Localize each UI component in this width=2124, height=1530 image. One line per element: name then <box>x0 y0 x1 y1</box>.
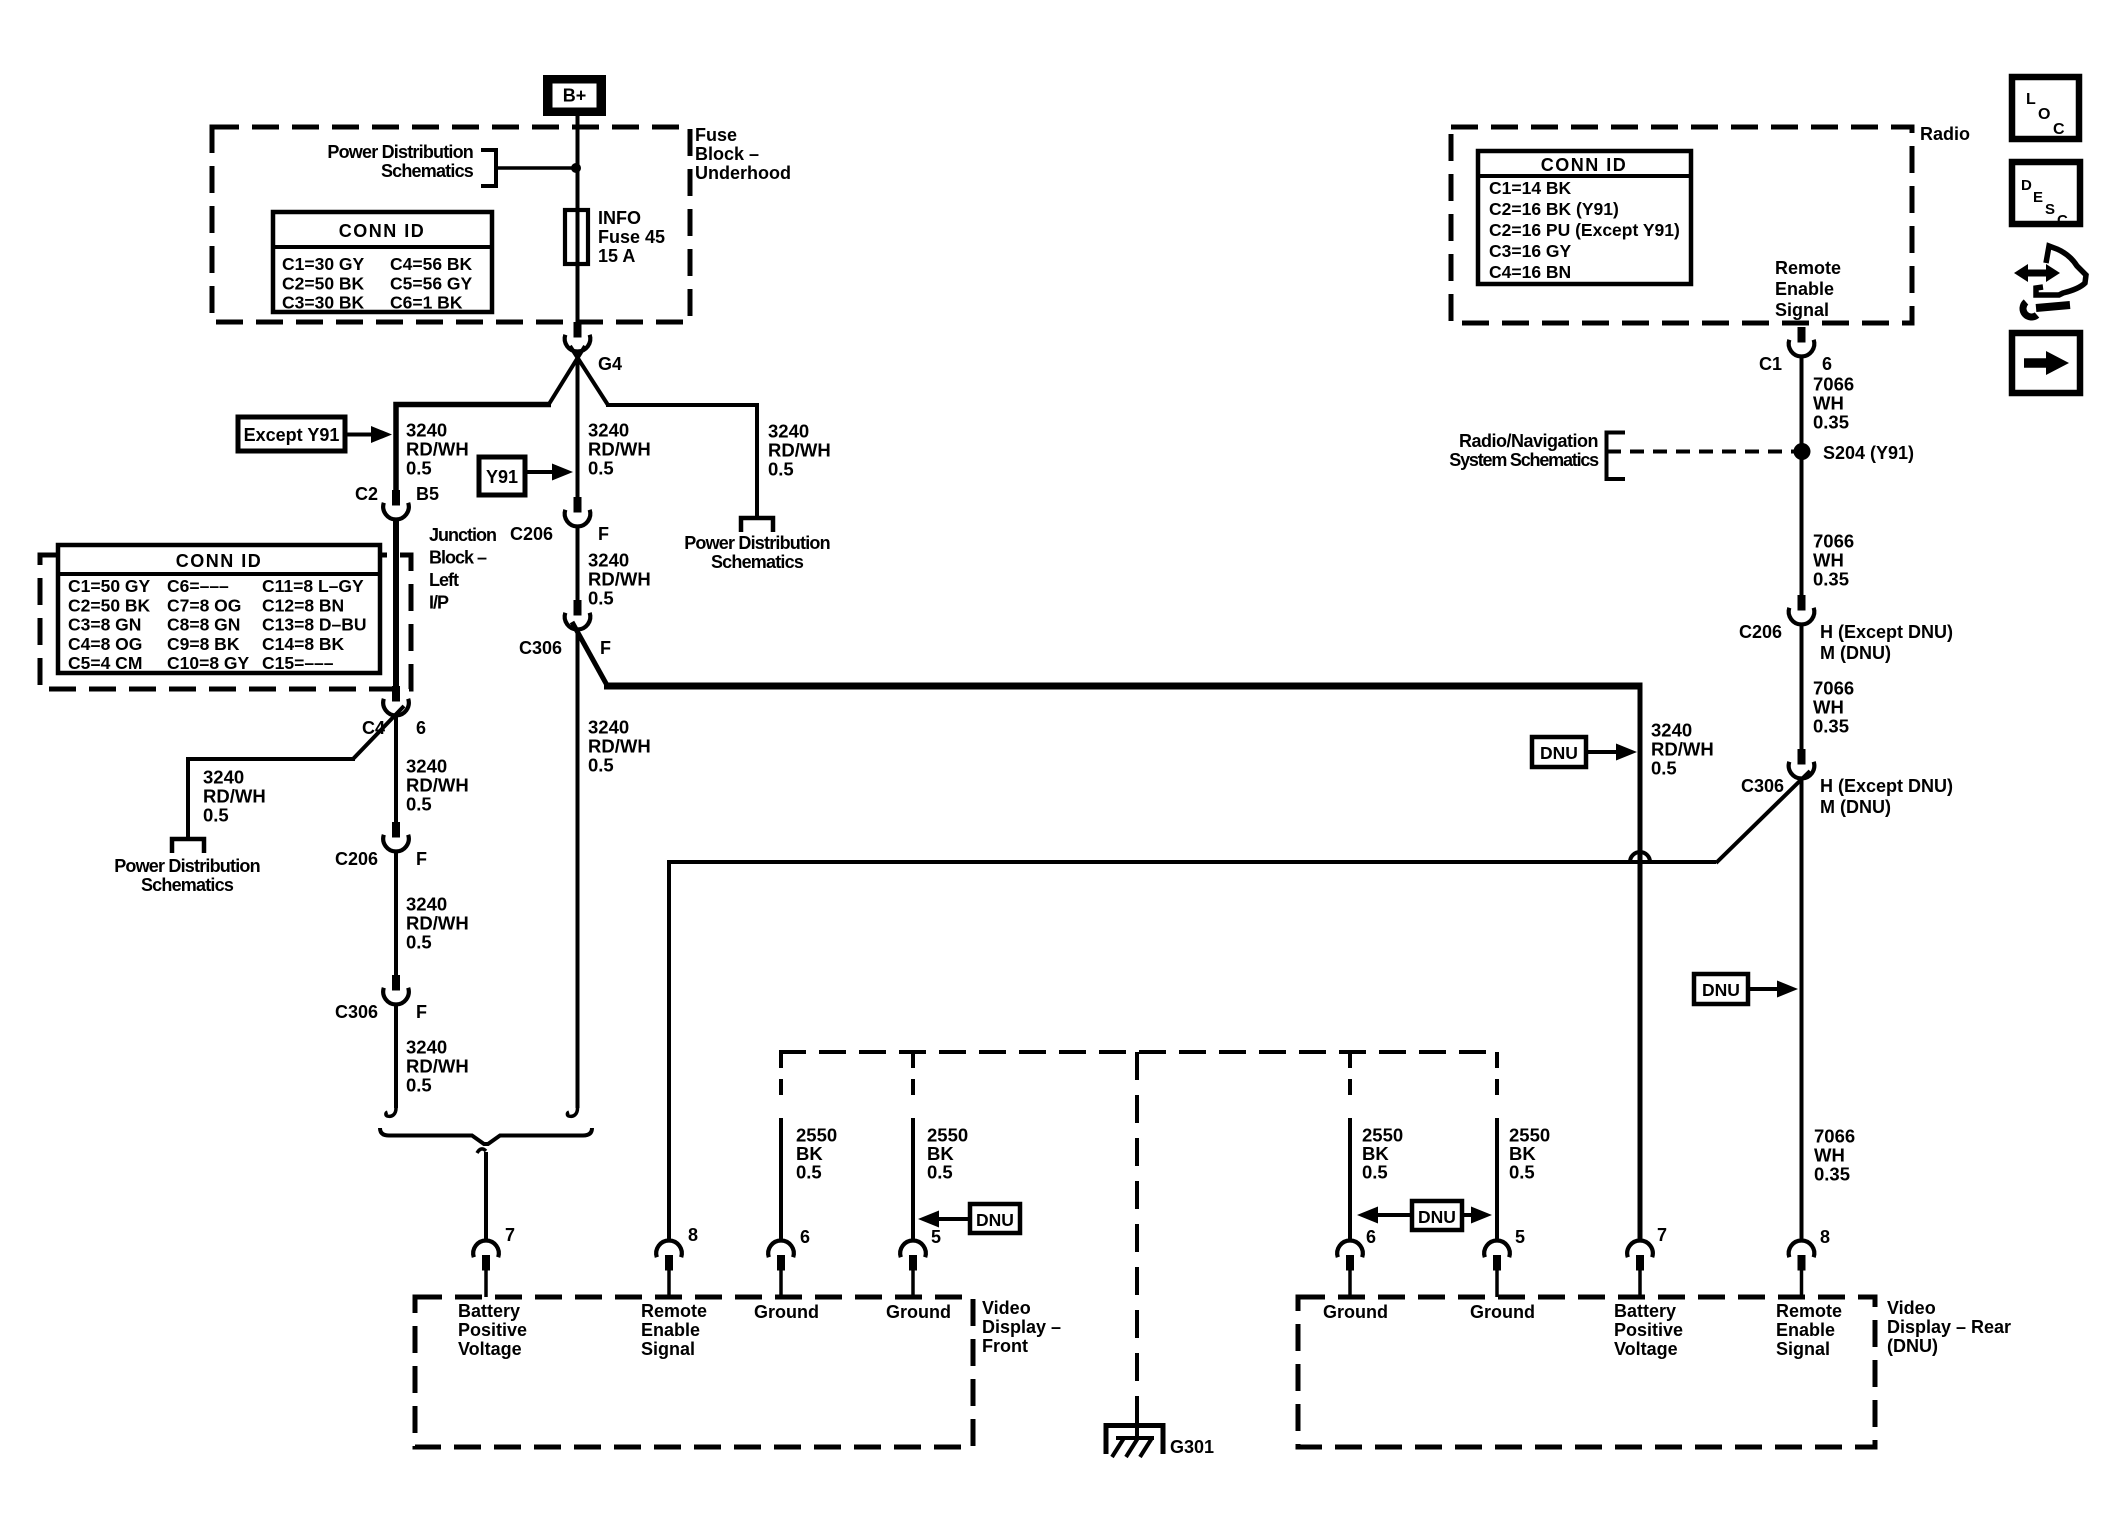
label Battery Positive Voltage (rear) <box>1614 1301 1683 1359</box>
connector C1 (radio) <box>1789 327 1815 356</box>
svg-text:Display –: Display – <box>982 1317 1061 1337</box>
svg-text:0.5: 0.5 <box>1509 1162 1535 1183</box>
svg-text:8: 8 <box>688 1225 698 1245</box>
svg-text:Ground: Ground <box>1323 1302 1388 1322</box>
svg-text:3240: 3240 <box>588 420 629 441</box>
connector pin 7 (rear) <box>1627 1241 1653 1297</box>
label C206 right <box>1739 622 1953 663</box>
svg-text:7066: 7066 <box>1813 678 1854 699</box>
svg-text:Radio/Navigation: Radio/Navigation <box>1459 431 1598 451</box>
svg-text:15 A: 15 A <box>598 246 635 266</box>
svg-text:C6=1 BK: C6=1 BK <box>390 293 463 313</box>
svg-text:7: 7 <box>1657 1225 1667 1245</box>
svg-text:3240: 3240 <box>406 756 447 777</box>
wire C1 down to C206 <box>1800 355 1804 597</box>
dashed wire tap to S204 <box>1607 450 1795 454</box>
svg-text:INFO: INFO <box>598 208 641 228</box>
svg-text:C1=30 GY: C1=30 GY <box>282 254 365 274</box>
wire rear ground 6 <box>1348 1118 1352 1242</box>
svg-text:Enable: Enable <box>1776 1320 1835 1340</box>
svg-text:RD/WH: RD/WH <box>588 439 651 460</box>
icon wrench and arrows <box>2014 246 2086 317</box>
video display front dashed box <box>415 1297 973 1447</box>
svg-text:Ground: Ground <box>754 1302 819 1322</box>
wire remote enable down to front pin 8 <box>667 860 671 1242</box>
arrow DNU to bus wire <box>1586 744 1637 761</box>
label 6 (front) <box>800 1227 810 1247</box>
wire label 3240 RD/WH 0.5 (C4 branch) <box>203 767 266 826</box>
svg-text:7066: 7066 <box>1814 1126 1855 1147</box>
wire thick bus horizontal <box>604 683 1640 690</box>
svg-text:RD/WH: RD/WH <box>203 786 266 807</box>
label Power Distribution Schematics (left) <box>114 856 260 895</box>
svg-text:M (DNU): M (DNU) <box>1820 797 1891 817</box>
svg-text:Ground: Ground <box>886 1302 951 1322</box>
label C206 / F (left) <box>335 849 427 869</box>
svg-text:Schematics: Schematics <box>711 552 804 572</box>
connector C206 (middle) <box>565 497 591 526</box>
wire label 3240 RD/WH 0.5 (right branch) <box>768 421 831 480</box>
svg-text:C5=56 GY: C5=56 GY <box>390 273 473 293</box>
table CONN ID (junction block) <box>58 545 380 673</box>
wire C306 right down to rear pin 8 <box>1800 777 1804 1242</box>
wire label 3240 RD/WH 0.5 (left C206-C306) <box>406 894 469 953</box>
arrow DNU to front ground 5 <box>918 1211 970 1228</box>
svg-text:6: 6 <box>800 1227 810 1247</box>
junction block - left I/P dashed box <box>40 555 411 689</box>
fuse INFO Fuse 45 15A <box>565 210 588 264</box>
label C4 / 6 <box>362 718 426 738</box>
svg-text:C7=8 OG: C7=8 OG <box>167 595 241 615</box>
label 5 (front) <box>931 1227 941 1247</box>
svg-text:C2=16 PU (Except Y91): C2=16 PU (Except Y91) <box>1489 220 1680 240</box>
svg-text:C2=50 BK: C2=50 BK <box>68 595 151 615</box>
dashed drop front ground 5 <box>911 1052 915 1106</box>
power symbol B+ <box>543 75 606 116</box>
svg-text:8: 8 <box>1820 1227 1830 1247</box>
svg-text:Display – Rear: Display – Rear <box>1887 1317 2011 1337</box>
label 6 (rear) <box>1366 1227 1376 1247</box>
label Radio/Navigation System Schematics <box>1449 431 1599 470</box>
wire front ground 5 <box>911 1118 915 1242</box>
svg-text:S204 (Y91): S204 (Y91) <box>1823 443 1914 463</box>
label Radio <box>1920 124 1970 144</box>
goes-to bracket (power distribution, left) <box>172 839 204 853</box>
wire label 2550 BK 0.5 (front 5) <box>927 1125 968 1183</box>
svg-text:L: L <box>2026 91 2036 108</box>
label 8 (rear) <box>1820 1227 1830 1247</box>
svg-text:C206: C206 <box>1739 622 1782 642</box>
icon DESC box <box>2012 162 2080 229</box>
svg-text:Remote: Remote <box>641 1301 707 1321</box>
connector pin 5 (front) <box>900 1241 926 1297</box>
svg-text:C9=8 BK: C9=8 BK <box>167 634 240 654</box>
svg-text:0.5: 0.5 <box>203 805 229 826</box>
svg-text:Ground: Ground <box>1470 1302 1535 1322</box>
wire hop over bus <box>1630 852 1650 862</box>
option box DNU (rear pin 8 wire) <box>1694 974 1748 1004</box>
svg-text:Fuse 45: Fuse 45 <box>598 227 665 247</box>
svg-text:C306: C306 <box>1741 776 1784 796</box>
svg-text:C206: C206 <box>335 849 378 869</box>
svg-text:0.35: 0.35 <box>1814 1164 1850 1185</box>
svg-text:Battery: Battery <box>1614 1301 1676 1321</box>
svg-text:0.5: 0.5 <box>588 588 614 609</box>
label Video Display - Front <box>982 1298 1061 1356</box>
wire label 2550 BK 0.5 (rear 5) <box>1509 1125 1550 1183</box>
svg-text:Remote: Remote <box>1776 1301 1842 1321</box>
svg-text:C15=–––: C15=––– <box>262 653 334 673</box>
connector pin 6 (rear) <box>1337 1241 1363 1297</box>
wire C2 to C4 (junction block bus) <box>393 518 399 688</box>
svg-text:C2=50 BK: C2=50 BK <box>282 273 365 293</box>
dashed drop rear ground 5 <box>1495 1052 1499 1106</box>
label Ground (front 5) <box>886 1302 951 1322</box>
svg-text:Positive: Positive <box>458 1320 527 1340</box>
wire hook below brace <box>477 1149 486 1153</box>
connector pin 7 (front) <box>473 1241 499 1297</box>
svg-text:H (Except DNU): H (Except DNU) <box>1820 776 1953 796</box>
connector C2 <box>383 490 409 519</box>
connector pin 5 (rear) <box>1484 1241 1510 1297</box>
svg-text:C1=14 BK: C1=14 BK <box>1489 178 1572 198</box>
svg-text:C1=50 GY: C1=50 GY <box>68 576 151 596</box>
svg-text:Junction: Junction <box>429 525 496 545</box>
wire C306 middle diagonal to bus <box>572 622 608 687</box>
svg-text:Positive: Positive <box>1614 1320 1683 1340</box>
ground G301 <box>1106 1424 1163 1457</box>
wire C4 branch diagonal <box>353 706 404 759</box>
svg-text:Block –: Block – <box>695 144 759 164</box>
wire label 7066 WH 0.35 (S204-C206) <box>1813 531 1854 590</box>
svg-text:3240: 3240 <box>406 894 447 915</box>
label Ground (rear 5) <box>1470 1302 1535 1322</box>
svg-text:3240: 3240 <box>1651 720 1692 741</box>
label Ground (rear 6) <box>1323 1302 1388 1322</box>
svg-text:RD/WH: RD/WH <box>406 439 469 460</box>
svg-text:C4=16 BN: C4=16 BN <box>1489 262 1571 282</box>
arrow Y91 to wire <box>525 464 573 481</box>
arrow DNU to pin 8 wire <box>1748 981 1798 998</box>
table CONN ID (fuse block) <box>273 212 492 313</box>
label C1 / 6 <box>1759 354 1832 374</box>
label Junction Block - Left I/P <box>429 525 496 613</box>
wire C206 to C306 (middle) <box>576 525 580 602</box>
svg-text:Power Distribution: Power Distribution <box>114 856 260 876</box>
connector G4 <box>565 322 591 351</box>
svg-text:C: C <box>2053 121 2065 138</box>
wire end hook (left) <box>386 1101 396 1116</box>
option box Y91 <box>479 457 525 495</box>
svg-text:DNU: DNU <box>1702 980 1740 1000</box>
connector pin 8 (front) <box>656 1241 682 1297</box>
svg-text:Voltage: Voltage <box>1614 1339 1678 1359</box>
svg-text:Signal: Signal <box>1775 300 1829 320</box>
svg-text:0.5: 0.5 <box>1651 758 1677 779</box>
svg-text:0.5: 0.5 <box>588 755 614 776</box>
svg-text:Remote: Remote <box>1775 258 1841 278</box>
svg-text:RD/WH: RD/WH <box>1651 739 1714 760</box>
wire rear ground 5 <box>1495 1118 1499 1242</box>
svg-text:B5: B5 <box>416 484 439 504</box>
svg-text:C306: C306 <box>335 1002 378 1022</box>
wire G4 left branch diagonal <box>549 346 585 404</box>
label S204 (Y91) <box>1823 443 1914 463</box>
table CONN ID (radio) <box>1478 151 1691 284</box>
svg-text:Schematics: Schematics <box>381 161 474 181</box>
svg-text:DNU: DNU <box>976 1210 1014 1230</box>
svg-text:WH: WH <box>1813 550 1844 571</box>
wire tap to B+ feed <box>496 166 577 170</box>
svg-text:CONN ID: CONN ID <box>176 551 263 571</box>
svg-text:B+: B+ <box>563 86 587 106</box>
wire C206 to C306 (right) <box>1800 623 1804 751</box>
arrow DNU to rear ground 5 <box>1462 1207 1492 1224</box>
label Remote Enable Signal (rear) <box>1776 1301 1842 1359</box>
svg-text:C4=8 OG: C4=8 OG <box>68 634 142 654</box>
wire C306 middle down <box>576 628 580 1108</box>
connector C206 (right) <box>1789 595 1815 624</box>
svg-text:C8=8 GN: C8=8 GN <box>167 615 240 635</box>
svg-text:Signal: Signal <box>641 1339 695 1359</box>
radio dashed box <box>1451 127 1912 323</box>
svg-text:F: F <box>416 849 427 869</box>
splice S204 <box>1794 443 1811 460</box>
svg-text:WH: WH <box>1814 1145 1845 1166</box>
svg-text:C5=4 CM: C5=4 CM <box>68 653 142 673</box>
label Ground (front 6) <box>754 1302 819 1322</box>
svg-text:0.5: 0.5 <box>406 932 432 953</box>
wire front ground 6 <box>779 1118 783 1242</box>
svg-text:G4: G4 <box>598 354 622 374</box>
svg-text:M (DNU): M (DNU) <box>1820 643 1891 663</box>
wire G4 right branch horizontal <box>606 405 757 518</box>
wire C4 down to C206 <box>394 714 398 824</box>
arrow Except Y91 to wire <box>345 426 392 443</box>
svg-text:C14=8 BK: C14=8 BK <box>262 634 345 654</box>
wire B+ down through fuse <box>576 112 580 324</box>
connector pin 6 (front) <box>768 1241 794 1297</box>
label C306 / F (left) <box>335 1002 427 1022</box>
wire label 3240 RD/WH 0.5 (middle branch) <box>588 420 651 479</box>
label G301 <box>1170 1437 1214 1457</box>
option box DNU (rear grounds) <box>1412 1201 1462 1230</box>
svg-text:C3=16 GY: C3=16 GY <box>1489 241 1572 261</box>
svg-text:G301: G301 <box>1170 1437 1214 1457</box>
svg-text:0.5: 0.5 <box>588 458 614 479</box>
wire C4 branch to power distribution <box>188 759 355 839</box>
svg-text:0.5: 0.5 <box>406 1075 432 1096</box>
svg-text:RD/WH: RD/WH <box>768 440 831 461</box>
svg-text:RD/WH: RD/WH <box>406 775 469 796</box>
label Video Display - Rear (DNU) <box>1887 1298 2011 1356</box>
wire label 3240 RD/WH 0.5 (left below C306) <box>406 1037 469 1096</box>
svg-text:CONN ID: CONN ID <box>1541 155 1628 175</box>
svg-text:Power Distribution: Power Distribution <box>327 142 473 162</box>
svg-text:Video: Video <box>982 1298 1031 1318</box>
label Power Distribution Schematics (right branch) <box>684 533 830 572</box>
icon LOC box <box>2012 77 2079 139</box>
label 5 (rear) <box>1515 1227 1525 1247</box>
svg-text:I/P: I/P <box>429 593 449 613</box>
svg-text:Schematics: Schematics <box>141 875 234 895</box>
wire brace to front pin 7 <box>484 1152 488 1242</box>
svg-text:O: O <box>2038 106 2050 123</box>
svg-text:3240: 3240 <box>406 1037 447 1058</box>
option box Except Y91 <box>238 417 345 451</box>
wire label 3240 RD/WH 0.5 (middle below C306) <box>588 717 651 776</box>
svg-text:Radio: Radio <box>1920 124 1970 144</box>
wire label 7066 WH 0.35 (C206-C306) <box>1813 678 1854 737</box>
dashed wire to G301 <box>1135 1052 1139 1424</box>
label Remote Enable Signal (radio) <box>1775 258 1841 320</box>
connector C306 (left) <box>383 975 409 1004</box>
svg-text:C10=8 GY: C10=8 GY <box>167 653 250 673</box>
connector C4 <box>383 686 409 715</box>
svg-text:H (Except DNU): H (Except DNU) <box>1820 622 1953 642</box>
svg-text:C3=30 BK: C3=30 BK <box>282 293 365 313</box>
svg-text:C: C <box>2057 212 2068 229</box>
svg-text:Block –: Block – <box>429 548 487 568</box>
wire label 7066 WH 0.35 (C1-S204) <box>1813 374 1854 433</box>
svg-text:7: 7 <box>505 1225 515 1245</box>
option box DNU (bus wire) <box>1532 737 1586 767</box>
svg-text:Enable: Enable <box>641 1320 700 1340</box>
svg-text:7066: 7066 <box>1813 531 1854 552</box>
svg-text:6: 6 <box>1366 1227 1376 1247</box>
label 7 (front) <box>505 1225 515 1245</box>
svg-text:WH: WH <box>1813 697 1844 718</box>
svg-text:Underhood: Underhood <box>695 163 791 183</box>
label 7 (rear) <box>1657 1225 1667 1245</box>
svg-text:Y91: Y91 <box>486 467 518 487</box>
svg-text:6: 6 <box>416 718 426 738</box>
video display rear dashed box <box>1298 1297 1875 1447</box>
label C206 / F (middle) <box>510 524 609 544</box>
label C306 / F (middle) <box>519 638 611 658</box>
svg-text:C2: C2 <box>355 484 378 504</box>
svg-text:F: F <box>598 524 609 544</box>
svg-text:DNU: DNU <box>1418 1207 1456 1227</box>
wire end hook (middle) <box>567 1101 577 1116</box>
svg-text:RD/WH: RD/WH <box>588 736 651 757</box>
label Fuse Block - Underhood <box>695 125 791 183</box>
svg-text:3240: 3240 <box>588 550 629 571</box>
wire C206 to C306 (left) <box>394 850 398 977</box>
icon arrow box <box>2012 333 2080 393</box>
wire label 2550 BK 0.5 (front 6) <box>796 1125 837 1183</box>
fuse block - underhood dashed box <box>212 127 690 322</box>
svg-text:Front: Front <box>982 1336 1028 1356</box>
wire remote enable horizontal <box>669 860 1716 864</box>
svg-text:3240: 3240 <box>406 420 447 441</box>
wire label 3240 RD/WH 0.5 (C4-C206) <box>406 756 469 815</box>
wire G4 middle branch down <box>576 351 580 499</box>
svg-text:S: S <box>2045 201 2055 218</box>
svg-text:DNU: DNU <box>1540 743 1578 763</box>
svg-text:6: 6 <box>1822 354 1832 374</box>
arrow DNU to rear ground 6 <box>1357 1207 1412 1224</box>
connector pin 8 (rear) <box>1789 1241 1815 1297</box>
svg-text:RD/WH: RD/WH <box>406 1056 469 1077</box>
svg-text:Except Y91: Except Y91 <box>244 425 340 445</box>
junction dot on B+ feed <box>571 163 581 173</box>
svg-text:C3=8 GN: C3=8 GN <box>68 615 141 635</box>
svg-text:Left: Left <box>429 570 459 590</box>
svg-text:Enable: Enable <box>1775 279 1834 299</box>
svg-text:C206: C206 <box>510 524 553 544</box>
svg-text:Signal: Signal <box>1776 1339 1830 1359</box>
svg-text:C6=–––: C6=––– <box>167 576 229 596</box>
svg-text:C306: C306 <box>519 638 562 658</box>
svg-text:C4=56 BK: C4=56 BK <box>390 254 473 274</box>
svg-text:0.5: 0.5 <box>406 458 432 479</box>
svg-text:0.5: 0.5 <box>796 1162 822 1183</box>
label C2 / B5 <box>355 484 439 504</box>
svg-text:3240: 3240 <box>203 767 244 788</box>
svg-text:Battery: Battery <box>458 1301 520 1321</box>
connector C306 (right) <box>1789 749 1815 778</box>
svg-text:F: F <box>600 638 611 658</box>
svg-text:0.5: 0.5 <box>1362 1162 1388 1183</box>
bracket symbol (power distribution tap) <box>481 150 496 186</box>
svg-text:C2=16 BK (Y91): C2=16 BK (Y91) <box>1489 199 1619 219</box>
label G4 <box>598 354 622 374</box>
label fuse value <box>598 208 665 266</box>
svg-text:5: 5 <box>1515 1227 1525 1247</box>
wire label 3240 RD/WH 0.5 (left branch) <box>406 420 469 479</box>
svg-text:0.5: 0.5 <box>927 1162 953 1183</box>
svg-text:Power Distribution: Power Distribution <box>684 533 830 553</box>
label Battery Positive Voltage (front) <box>458 1301 527 1359</box>
svg-text:E: E <box>2033 189 2043 206</box>
wire G4 right branch diagonal <box>570 346 608 405</box>
wire C306 left down <box>394 1003 398 1108</box>
wire thick bus down to rear display pin 7 <box>1638 683 1643 1242</box>
svg-text:System Schematics: System Schematics <box>1449 450 1599 470</box>
wire label 3240 RD/WH 0.5 (bus) <box>1651 720 1714 779</box>
svg-text:Voltage: Voltage <box>458 1339 522 1359</box>
connector C306 (middle) <box>565 600 591 629</box>
bracket symbol (radio/navigation tap) <box>1607 433 1626 480</box>
svg-text:C1: C1 <box>1759 354 1782 374</box>
brace merge of left+middle wires <box>380 1128 592 1144</box>
dashed drop front ground 6 <box>779 1052 783 1106</box>
svg-text:D: D <box>2021 177 2032 194</box>
label Power Distribution Schematics (fuse block tap) <box>327 142 473 181</box>
dashed drop rear ground 6 <box>1348 1052 1352 1106</box>
svg-text:WH: WH <box>1813 393 1844 414</box>
svg-text:0.35: 0.35 <box>1813 716 1849 737</box>
svg-text:0.5: 0.5 <box>406 794 432 815</box>
svg-text:0.35: 0.35 <box>1813 412 1849 433</box>
svg-text:C13=8 D–BU: C13=8 D–BU <box>262 615 367 635</box>
svg-text:Fuse: Fuse <box>695 125 737 145</box>
svg-text:Video: Video <box>1887 1298 1936 1318</box>
option box DNU (front ground 5) <box>970 1204 1020 1233</box>
svg-text:5: 5 <box>931 1227 941 1247</box>
svg-text:(DNU): (DNU) <box>1887 1336 1938 1356</box>
goes-to bracket (power distribution, right branch) <box>741 518 773 532</box>
svg-text:0.5: 0.5 <box>768 459 794 480</box>
svg-text:3240: 3240 <box>588 717 629 738</box>
wire C306 diagonal to remote enable line <box>1716 771 1810 863</box>
label Remote Enable Signal (front) <box>641 1301 707 1359</box>
wire G4 left branch to C2 <box>396 405 551 493</box>
svg-text:7066: 7066 <box>1813 374 1854 395</box>
svg-text:C11=8 L–GY: C11=8 L–GY <box>262 576 364 596</box>
connector C206 (left) <box>383 822 409 851</box>
